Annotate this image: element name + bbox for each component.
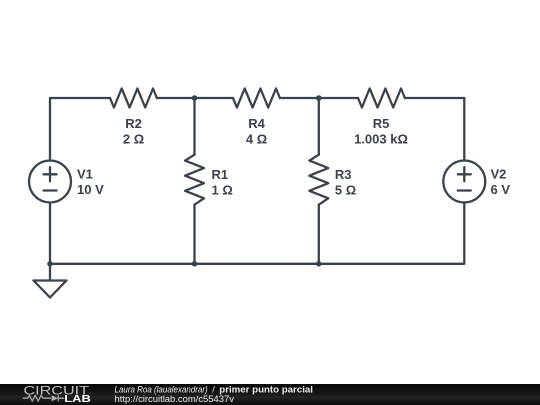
resistor R4 [233,89,280,108]
svg-text:R4: R4 [248,116,265,131]
svg-text:6 V: 6 V [491,182,511,197]
node R3-bottom dot [316,261,322,267]
svg-text:1.003 kΩ: 1.003 kΩ [354,132,408,147]
wire bottom rail [50,203,464,264]
wire R1 branch bottom [193,205,195,264]
wire R3 branch top [318,98,320,155]
svg-text:1 Ω: 1 Ω [212,182,233,197]
svg-text:4 Ω: 4 Ω [246,132,267,147]
voltage source V2 [443,161,485,203]
resistor R5 [358,89,405,108]
wire R1 branch top [193,98,195,155]
logo diode symbol [52,396,58,402]
footer bar [0,384,540,405]
wire R5 to V2 top [405,98,464,161]
wire R4 to node B [280,97,358,99]
resistor R1 [185,155,204,205]
wire R2 to node A [157,97,233,99]
node R1-bottom dot [192,261,198,267]
node B dot [316,95,322,101]
resistor R3 [309,155,328,205]
svg-text:R5: R5 [373,116,390,131]
resistor R2 [110,89,157,108]
svg-text:2 Ω: 2 Ω [123,132,144,147]
svg-text:LAB: LAB [64,393,91,405]
wire V1 bottom to ground node [49,203,51,264]
svg-text:5 Ω: 5 Ω [335,182,356,197]
wire top-left segment (V1 top to R2) [50,98,110,161]
svg-text:V2: V2 [491,167,507,182]
svg-text:10 V: 10 V [77,182,104,197]
node A dot [192,95,198,101]
svg-text:R3: R3 [335,167,352,182]
svg-text:http://circuitlab.com/c55437v: http://circuitlab.com/c55437v [115,394,235,404]
ground [34,264,67,298]
svg-text:R2: R2 [125,116,142,131]
svg-text:V1: V1 [77,167,93,182]
logo resistor squiggle [23,396,51,402]
svg-text:R1: R1 [212,167,229,182]
wire R3 branch bottom [318,205,320,264]
voltage source V1 [29,161,71,203]
node ground dot [47,261,53,267]
